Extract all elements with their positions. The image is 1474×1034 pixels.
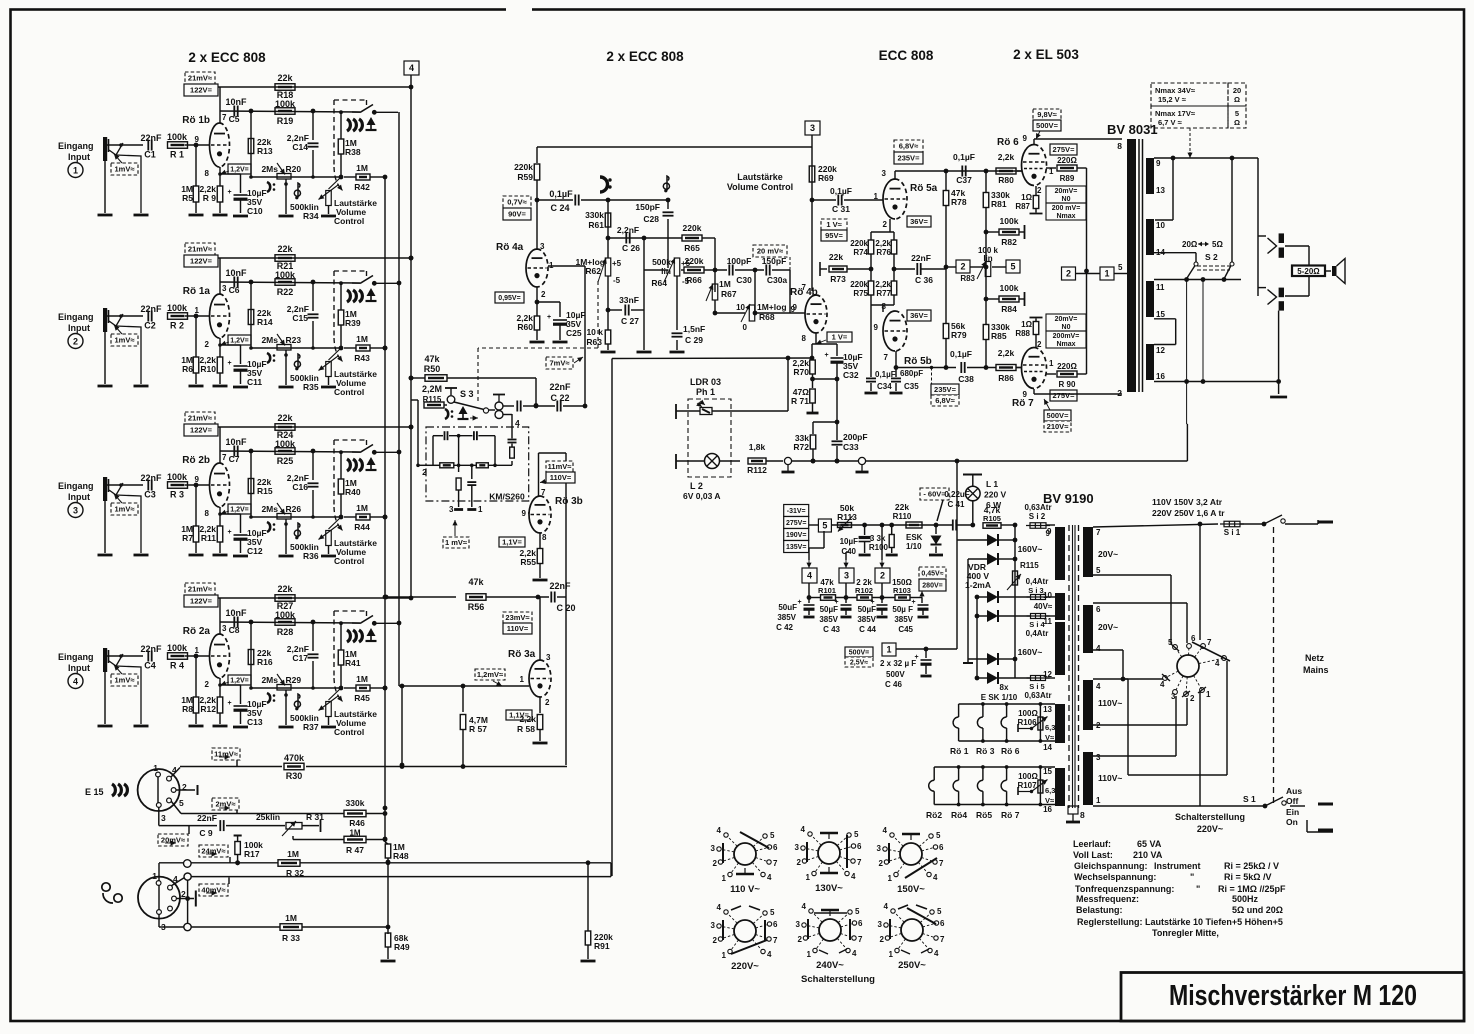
svg-text:+5: +5 [612, 259, 622, 268]
svg-text:R56: R56 [468, 602, 485, 612]
measurement box 40mV [199, 884, 228, 896]
svg-text:Wechselspannung:: Wechselspannung: [1074, 872, 1156, 882]
svg-text:9: 9 [1023, 390, 1028, 399]
svg-text:4: 4 [802, 902, 807, 911]
svg-text:220V~: 220V~ [731, 961, 759, 972]
svg-text:1: 1 [478, 505, 483, 514]
svg-text:C5: C5 [229, 114, 240, 124]
svg-text:C11: C11 [247, 377, 262, 387]
svg-text:10: 10 [736, 303, 745, 312]
svg-text:65 VA: 65 VA [1137, 839, 1162, 849]
svg-text:C12: C12 [247, 546, 263, 556]
svg-text:3: 3 [161, 813, 166, 823]
svg-text:-31V=: -31V= [787, 508, 806, 515]
wire mains top [1093, 524, 1218, 527]
wire bass row [608, 237, 644, 239]
svg-text:R20: R20 [286, 164, 302, 174]
svg-text:7: 7 [222, 453, 227, 462]
svg-text:3: 3 [546, 653, 551, 662]
svg-text:R7: R7 [182, 533, 193, 543]
wire splitter pot row [946, 266, 956, 268]
svg-text:1: 1 [1104, 269, 1109, 279]
svg-text:Rö 6: Rö 6 [1001, 746, 1020, 756]
supply rail wire channel 2 [218, 257, 411, 259]
svg-text:+: + [825, 352, 829, 359]
box 1V cathode [827, 332, 852, 342]
svg-text:280V=: 280V= [922, 583, 942, 590]
supply rail wire channel 1 [218, 86, 411, 88]
svg-text:3: 3 [711, 921, 716, 930]
svg-text:Schalterstellung: Schalterstellung [801, 974, 875, 985]
svg-text:R30: R30 [286, 771, 303, 781]
speaker arcs icon [347, 119, 350, 131]
svg-text:100pF: 100pF [727, 256, 752, 266]
capacitor C45 50uF [918, 604, 929, 606]
svg-text:10nF: 10nF [225, 97, 247, 107]
svg-text:Control: Control [334, 727, 364, 737]
svg-text:2: 2 [880, 571, 885, 581]
svg-text:3: 3 [1096, 753, 1101, 762]
svg-text:R41: R41 [345, 658, 361, 668]
bus box 2 left [956, 260, 970, 273]
svg-text:22k: 22k [895, 502, 909, 512]
svg-text:C10: C10 [247, 206, 263, 216]
wire box3 column [811, 147, 813, 291]
svg-text:5: 5 [936, 831, 941, 840]
svg-text:On: On [1286, 817, 1298, 827]
svg-text:1,2mV≈: 1,2mV≈ [477, 670, 503, 679]
capacitor C33 200pF [832, 440, 843, 442]
wire rectifier columns [1014, 525, 1016, 678]
svg-text:110 V~: 110 V~ [730, 884, 760, 895]
svg-text:Rö 1: Rö 1 [950, 746, 969, 756]
svg-text:R70: R70 [793, 367, 809, 377]
svg-text:2,2nF: 2,2nF [617, 225, 639, 235]
svg-text:R6: R6 [182, 364, 193, 374]
svg-text:2: 2 [1037, 340, 1042, 349]
svg-text:R23: R23 [286, 335, 302, 345]
svg-text:S i 5: S i 5 [1029, 682, 1044, 691]
svg-text:50µF: 50µF [858, 605, 877, 614]
svg-text:122V=: 122V= [190, 257, 213, 266]
svg-text:3 3k: 3 3k [870, 534, 886, 543]
volume control dashed enclosure [334, 99, 367, 101]
svg-text:R25: R25 [277, 456, 294, 466]
svg-text:2: 2 [880, 935, 885, 944]
svg-text:2: 2 [1037, 186, 1042, 195]
svg-text:R75: R75 [853, 289, 868, 298]
supply rail wire channel 3 [218, 426, 411, 428]
svg-text:20 mV≈: 20 mV≈ [757, 247, 783, 256]
wire C20 riser upper [565, 453, 567, 597]
svg-text:R67: R67 [721, 289, 737, 299]
svg-text:4: 4 [934, 949, 939, 958]
svg-text:1M: 1M [356, 334, 368, 344]
ground jack sleeve [104, 672, 106, 724]
wire C20 riser lower [565, 597, 567, 765]
wire secondary 11 [1154, 279, 1241, 281]
svg-text:122V=: 122V= [190, 86, 213, 95]
heater rungs group1 [958, 704, 960, 717]
resistor R6 1M grid leak [195, 316, 197, 357]
svg-text:1,2V=: 1,2V= [230, 338, 249, 345]
svg-text:R76: R76 [876, 248, 891, 257]
svg-text:330k: 330k [346, 798, 365, 808]
svg-text:R81: R81 [991, 199, 1007, 209]
svg-text:2,2k: 2,2k [998, 348, 1015, 358]
svg-text:R60: R60 [517, 322, 533, 332]
heater group 2 loop [934, 766, 1055, 768]
svg-text:110V=: 110V= [550, 473, 572, 482]
svg-text:Control: Control [334, 387, 364, 397]
svg-text:Rö 3a: Rö 3a [508, 649, 536, 660]
svg-text:L 1: L 1 [986, 479, 998, 489]
svg-text:1: 1 [889, 950, 894, 959]
selector diagram 250V~ [901, 919, 923, 941]
svg-text:Nmax 34V≈: Nmax 34V≈ [1155, 86, 1195, 95]
capacitor C43 50uF [841, 604, 852, 606]
selector contact arm long [1192, 642, 1230, 661]
svg-text:-5: -5 [613, 276, 621, 285]
svg-text:R78: R78 [951, 197, 967, 207]
svg-text:R84: R84 [1001, 304, 1017, 314]
svg-text:1: 1 [722, 951, 727, 960]
wire anode node [219, 87, 221, 123]
svg-text:9: 9 [522, 509, 527, 518]
svg-text:R113: R113 [837, 512, 857, 522]
svg-text:1: 1 [874, 192, 879, 201]
wire tap5 [1093, 574, 1171, 576]
svg-text:0,7V≈: 0,7V≈ [507, 198, 527, 207]
potentiometer R36 500k volume [329, 517, 342, 529]
svg-text:R 3: R 3 [170, 490, 184, 500]
measurement boxes 235V 6,8V [931, 368, 933, 385]
svg-text:2: 2 [545, 698, 550, 707]
svg-text:6,8V≈: 6,8V≈ [899, 142, 919, 151]
svg-text:C 31: C 31 [832, 204, 850, 214]
arrow icon [367, 457, 376, 465]
fuse Si1 [1224, 521, 1240, 527]
wire return line lower [191, 876, 611, 878]
svg-text:100k: 100k [1000, 216, 1019, 226]
arrow icon [367, 117, 376, 125]
wire anode node [219, 598, 221, 634]
svg-text:1: 1 [1206, 690, 1211, 699]
svg-text:11: 11 [1156, 283, 1165, 292]
wire mid splitter [870, 254, 872, 281]
transformer BV9190 primary bars [1055, 527, 1065, 580]
wires filter chain [808, 583, 810, 603]
wire grid Roe3b [528, 512, 529, 514]
svg-text:7: 7 [222, 113, 227, 122]
svg-text:1M: 1M [719, 279, 731, 289]
svg-text:220k: 220k [683, 223, 702, 233]
resistor R59 220k [536, 147, 538, 163]
node measurement boxes channel 2 [185, 243, 215, 255]
svg-text:2: 2 [73, 337, 78, 347]
svg-text:5: 5 [770, 908, 775, 917]
svg-text:160V~: 160V~ [1018, 544, 1043, 554]
svg-text:110V 150V 3,2 Atr: 110V 150V 3,2 Atr [1152, 497, 1223, 507]
resistor R49 68k [385, 933, 391, 947]
box 5-20 ohm [1292, 266, 1325, 277]
resistor R71 47ohm [812, 379, 814, 388]
svg-text:22nF: 22nF [549, 382, 571, 392]
svg-text:Input: Input [68, 663, 90, 673]
svg-text:100k: 100k [167, 643, 188, 653]
svg-text:C4: C4 [144, 661, 156, 671]
svg-text:R 9: R 9 [203, 193, 217, 203]
svg-text:C25: C25 [566, 328, 582, 338]
wire bus to R49 [387, 862, 389, 927]
svg-text:5-20Ω: 5-20Ω [1297, 267, 1320, 276]
svg-text:Nmax 17V≈: Nmax 17V≈ [1155, 109, 1195, 118]
wire C30 junction risers [754, 270, 756, 313]
resistor R15 22k [250, 451, 252, 517]
svg-text:6,3: 6,3 [1045, 723, 1055, 732]
svg-text:8: 8 [205, 169, 210, 178]
svg-text:1M: 1M [356, 163, 368, 173]
svg-text:R112: R112 [747, 465, 767, 475]
wire tap6 [1093, 602, 1187, 604]
svg-text:4: 4 [1160, 680, 1165, 689]
bass clef symbol [267, 522, 270, 532]
svg-text:7: 7 [802, 283, 807, 292]
svg-text:2: 2 [797, 858, 802, 867]
measurement box 1,2mV [475, 669, 505, 680]
svg-text:R63: R63 [586, 337, 602, 347]
svg-text:160V~: 160V~ [1018, 647, 1043, 657]
svg-text:Messfrequenz:: Messfrequenz: [1076, 894, 1139, 904]
svg-text:R110: R110 [893, 512, 912, 521]
wire phono link vertical [187, 880, 189, 923]
bass clef symbol [267, 693, 270, 703]
measurement box 1mV channel 3 [111, 503, 138, 515]
svg-text:5: 5 [770, 831, 775, 840]
svg-text:R77: R77 [876, 289, 891, 298]
svg-text:S 1: S 1 [1243, 794, 1256, 804]
wire feedback row [251, 347, 340, 349]
speaker arcs icon [347, 459, 350, 471]
svg-text:2: 2 [1066, 269, 1071, 279]
measurement box 11mV [212, 748, 240, 760]
wire tap3 [1093, 755, 1176, 757]
svg-text:9: 9 [1156, 159, 1161, 168]
wire secondary 9 [1154, 157, 1258, 159]
svg-text:20mV=: 20mV= [1055, 188, 1078, 195]
resistor R107 100ohm pot [1039, 767, 1041, 805]
svg-text:Input: Input [68, 492, 90, 502]
svg-text:4: 4 [1215, 659, 1220, 668]
svg-text:Belastung:: Belastung: [1076, 905, 1123, 915]
svg-text:R39: R39 [345, 318, 361, 328]
wire R67 to R68 [715, 312, 745, 314]
filter network KM/S260 enclosure [426, 427, 529, 501]
svg-text:220Ω: 220Ω [1057, 156, 1077, 165]
measurement boxes 11mV 110V [546, 461, 573, 472]
svg-text:6: 6 [939, 843, 944, 852]
svg-text:Ri = 1MΩ //25pF: Ri = 1MΩ //25pF [1218, 884, 1286, 894]
wire R30 feedback line [171, 768, 180, 778]
svg-text:47k: 47k [424, 354, 440, 364]
svg-text:1,2V=: 1,2V= [230, 678, 249, 685]
svg-text:R62: R62 [585, 266, 601, 276]
svg-text:220k: 220k [850, 280, 868, 289]
wire LDR riser [787, 358, 789, 411]
svg-text:6,3: 6,3 [1045, 786, 1055, 795]
main rail wire [831, 524, 951, 526]
svg-text:4: 4 [73, 677, 78, 687]
svg-text:1: 1 [807, 950, 812, 959]
svg-text:385V: 385V [819, 615, 838, 624]
treble clef symbol [298, 694, 300, 709]
svg-text:22k: 22k [277, 413, 293, 423]
rotary selector [1177, 655, 1199, 677]
svg-text:1,1V=: 1,1V= [502, 538, 522, 547]
svg-text:330k: 330k [585, 210, 604, 220]
svg-text:R73: R73 [830, 274, 846, 284]
wire tap4 upper [1093, 649, 1123, 651]
svg-text:1M: 1M [287, 849, 299, 859]
svg-text:E SK 1/10: E SK 1/10 [981, 693, 1018, 702]
svg-text:1M: 1M [356, 674, 368, 684]
resistor R39 1M [339, 281, 343, 285]
svg-text:2: 2 [798, 935, 803, 944]
wire anode node [219, 258, 221, 294]
svg-text:C8: C8 [229, 625, 240, 635]
svg-text:16: 16 [1156, 372, 1165, 381]
svg-text:8: 8 [1080, 810, 1085, 820]
resistor R72 33k [812, 422, 814, 434]
svg-text:R107: R107 [1017, 781, 1037, 790]
svg-text:C17: C17 [292, 653, 308, 663]
svg-text:Input: Input [68, 152, 90, 162]
wire Roe6 grid [1017, 170, 1022, 172]
svg-text:R79: R79 [951, 330, 967, 340]
svg-text:190V=: 190V= [786, 532, 806, 539]
svg-text:0,45V≈: 0,45V≈ [921, 571, 943, 578]
svg-text:0,95V=: 0,95V= [498, 295, 520, 302]
svg-text:36V=: 36V= [910, 311, 928, 320]
svg-text:2: 2 [181, 889, 186, 899]
wire jack bracket [1285, 245, 1309, 247]
transformer BV8031 secondary 12-16 [1146, 344, 1154, 380]
svg-text:2 x ECC 808: 2 x ECC 808 [188, 50, 266, 65]
measurement boxes 23mV 110V [503, 612, 532, 623]
measurement boxes -31V 275V 190V 135V [784, 505, 809, 517]
switch contact [352, 451, 360, 453]
svg-text:Tonfrequenzspannung:: Tonfrequenzspannung: [1075, 884, 1174, 894]
svg-text:R101: R101 [818, 586, 836, 595]
transformer BV8031 core [1138, 139, 1140, 392]
svg-text:R 1: R 1 [170, 150, 184, 160]
svg-text:R14: R14 [257, 317, 273, 327]
box 36V upper [907, 216, 931, 227]
svg-text:122V=: 122V= [190, 597, 213, 606]
resistor R12 2,2k cathode [219, 678, 221, 697]
svg-text:220V 250V 1,6 A tr: 220V 250V 1,6 A tr [1152, 508, 1225, 518]
svg-text:0,1µF: 0,1µF [549, 189, 573, 199]
svg-text:R82: R82 [1001, 237, 1017, 247]
wire anode Roe3a [539, 597, 541, 660]
svg-text:3: 3 [449, 505, 454, 514]
svg-text:210V≈: 210V≈ [1047, 422, 1069, 431]
svg-text:9: 9 [195, 475, 200, 484]
ground pot wiper [279, 215, 294, 218]
svg-text:3: 3 [796, 920, 801, 929]
arrow icon [367, 288, 376, 296]
svg-text:275V=: 275V= [1053, 145, 1076, 154]
svg-text:Control: Control [334, 556, 364, 566]
bus box 5 [1006, 260, 1020, 273]
svg-text:N0: N0 [1062, 324, 1071, 331]
filter internal resistors [440, 463, 454, 468]
svg-text:5: 5 [1010, 262, 1015, 272]
svg-text:6: 6 [857, 842, 862, 851]
svg-text:C33: C33 [843, 442, 859, 452]
wire pin2 phono stub [177, 898, 195, 900]
box 0,95V [495, 292, 524, 303]
svg-text:22k: 22k [277, 73, 293, 83]
transformer BV9190 core dashed [1068, 525, 1070, 808]
svg-text:9: 9 [874, 323, 879, 332]
measurement box 1mV channel 4 [111, 674, 138, 686]
ground pot wiper [279, 386, 294, 389]
svg-text:0,22uF: 0,22uF [944, 490, 969, 499]
volume control dashed enclosure [334, 439, 367, 441]
svg-text:33nF: 33nF [619, 295, 639, 305]
selector diagram 240V~ [819, 919, 841, 941]
svg-text:R22: R22 [277, 287, 294, 297]
node measurement boxes channel 3 [185, 412, 215, 424]
svg-text:5: 5 [854, 830, 859, 839]
resistor R61 330k [607, 200, 609, 238]
svg-text:2: 2 [205, 680, 210, 689]
wire selector loop [1123, 678, 1128, 680]
svg-text:Rö 1a: Rö 1a [183, 286, 211, 297]
bus box 1 [1100, 267, 1114, 280]
ground jack contact [134, 214, 149, 217]
svg-text:7: 7 [1207, 638, 1212, 647]
svg-text:5Ω und 20Ω: 5Ω und 20Ω [1232, 905, 1283, 915]
transformer BV9190 pin8 bottom [1068, 806, 1078, 814]
svg-text:2: 2 [713, 936, 718, 945]
svg-text:3: 3 [711, 844, 716, 853]
svg-text:8: 8 [1117, 141, 1122, 151]
resistor R84 100k [985, 267, 987, 299]
box 275V upper [1050, 144, 1077, 155]
svg-text:500V=: 500V= [1036, 121, 1059, 130]
heater rungs group2 [933, 767, 935, 780]
svg-text:C30a: C30a [767, 275, 788, 285]
svg-text:1: 1 [520, 675, 525, 684]
svg-text:C15: C15 [292, 313, 308, 323]
wire Roe4b grid [803, 312, 805, 314]
resistor R41 1M [339, 621, 343, 625]
svg-text:220k: 220k [850, 239, 868, 248]
svg-text:S i 4: S i 4 [1029, 620, 1045, 629]
svg-text:Rö2: Rö2 [926, 810, 942, 820]
svg-text:235V=: 235V= [934, 385, 957, 394]
svg-text:4: 4 [1096, 682, 1101, 691]
svg-text:4: 4 [717, 826, 722, 835]
wire U-turn connector [610, 863, 612, 877]
wire R50 drop [535, 378, 537, 406]
transformer BV8031 secondary 10-14 [1146, 219, 1154, 255]
svg-text:": " [1190, 872, 1194, 882]
svg-text:50uF: 50uF [778, 603, 797, 612]
svg-text:21mV≈: 21mV≈ [188, 245, 212, 254]
